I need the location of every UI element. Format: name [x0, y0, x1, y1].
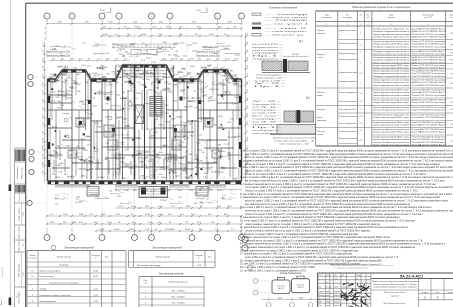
svg-text:Дата: Дата [347, 287, 351, 289]
svg-text:Улучшенная окраска масляными с: Улучшенная окраска масляными соста [373, 129, 410, 131]
svg-text:Пр-1: Пр-1 [55, 45, 59, 47]
interior dim ticks rows [49, 83, 51, 85]
bottom dimension chains [115, 207, 242, 209]
svg-text:760: 760 [181, 142, 185, 144]
svg-text:0.000: 0.000 [145, 214, 151, 216]
svg-text:тип 2: тип 2 [109, 126, 114, 128]
svg-text:3.3: 3.3 [194, 108, 198, 110]
svg-text:12.4: 12.4 [129, 56, 134, 58]
svg-text:Фамил.: Фамил. [334, 301, 341, 304]
svg-text:640: 640 [77, 74, 81, 76]
dim row under wall [115, 188, 242, 190]
sub dimension lines above wall [50, 60, 130, 62]
svg-text:Краска МА-25 ГОСТ-10503-71 Вар: Краска МА-25 ГОСТ-10503-71 Вар.2,3 [412, 124, 447, 127]
svg-text:45: 45 [112, 47, 115, 49]
svg-text:площадка: площадка [252, 130, 278, 132]
svg-text:7.2: 7.2 [206, 199, 209, 201]
svg-text:клетки: клетки [317, 134, 323, 136]
svg-text:11.9: 11.9 [138, 158, 143, 160]
svg-text:16.61: 16.61 [128, 91, 134, 93]
svg-text:30.24: 30.24 [118, 67, 124, 69]
svg-text:4: 4 [368, 24, 370, 26]
svg-text:кухня-ниша: кухня-ниша [78, 169, 89, 171]
svg-text:2700: 2700 [125, 126, 130, 128]
svg-text:910 × 2070(h): 910 × 2070(h) [172, 289, 185, 292]
svg-text:9,0: 9,0 [45, 37, 47, 40]
svg-text:1: 1 [326, 24, 328, 26]
svg-text:1390: 1390 [90, 194, 94, 196]
svg-text:590: 590 [145, 45, 149, 47]
svg-text:Краска МА-25 ГОСТ-10503-71 Вар: Краска МА-25 ГОСТ-10503-71 Вар.2,3 [412, 50, 447, 53]
svg-text:12.4: 12.4 [179, 116, 184, 118]
svg-text:11.9: 11.9 [232, 104, 237, 106]
sheet edge line [9, 0, 11, 307]
svg-text:2070: 2070 [163, 145, 168, 147]
svg-text:ванная: ванная [111, 105, 117, 107]
svg-text:4.31: 4.31 [234, 59, 239, 61]
svg-text:Б: Б [46, 16, 48, 18]
svg-text:4.31: 4.31 [171, 138, 176, 140]
svg-text:Кирпичная стена 250: Кирпичная стена 250 [110, 135, 129, 137]
svg-text:Потолки железобетонные: Потолки железобетонные [339, 43, 358, 45]
svg-text:11.9: 11.9 [141, 60, 146, 62]
svg-text:Экспликация проёмов: Экспликация проёмов [159, 273, 184, 276]
svg-text:Провер.: Провер. [318, 295, 325, 297]
svg-text:-0.02: -0.02 [118, 206, 124, 208]
svg-text:Улучшенная окраска масляными с: Улучшенная окраска масляными соста [373, 110, 410, 112]
svg-text:Окраска водоэмульсионными сост: Окраска водоэмульсионными составами [373, 34, 410, 36]
svg-text:Подп. и дата: Подп. и дата [19, 239, 21, 252]
svg-text:11.9: 11.9 [60, 105, 65, 107]
svg-text:45: 45 [194, 91, 197, 93]
room number circles [64, 118, 68, 122]
svg-text:Экспликация помещений: Экспликация помещений [152, 247, 182, 250]
bay window ticks [63, 68, 65, 70]
svg-text:0.000: 0.000 [152, 67, 158, 69]
svg-text:м²: м² [198, 256, 200, 259]
svg-text:2.89: 2.89 [197, 265, 202, 267]
svg-text:Затирка швов раствором М100 с: Затирка швов раствором М100 с окрас [373, 122, 409, 124]
svg-text:1-1: 1-1 [247, 129, 249, 133]
svg-text:Окраска водоэмульсионными сост: Окраска водоэмульсионными составами [373, 73, 410, 75]
svg-text:— гипсокартон: — гипсокартон [265, 31, 307, 33]
svg-text:380: 380 [85, 82, 89, 84]
svg-text:Начальник отдела Согласовано /: Начальник отдела Согласовано /подпись/ Ф… [330, 263, 383, 266]
svg-text:300: 300 [73, 68, 76, 70]
svg-text:Оклейка обоями по подготовке с: Оклейка обоями по подготовке стен [373, 36, 409, 39]
svg-text:30.24: 30.24 [96, 82, 102, 84]
svg-text:Плитка ГОСТ 6141-91 на раствор: Плитка ГОСТ 6141-91 на растворе [412, 41, 447, 43]
svg-text:1500: 1500 [158, 124, 163, 126]
svg-text:Кол.: Кол. [105, 257, 109, 259]
svg-text:9,0: 9,0 [45, 27, 47, 30]
svg-text:п/п: п/п [144, 283, 147, 285]
svg-text:1200: 1200 [247, 112, 249, 117]
blocking scheme dims [258, 280, 272, 282]
svg-text:Д.1: Д.1 [299, 39, 304, 43]
svg-text:380: 380 [227, 153, 231, 155]
svg-text:1200: 1200 [214, 68, 218, 70]
svg-text:-0.02: -0.02 [169, 70, 175, 72]
legend item 1 [252, 13, 261, 15]
svg-text:30.24: 30.24 [85, 100, 91, 102]
svg-text:лист: лист [335, 278, 339, 280]
explication table A title [51, 245, 55, 249]
svg-text:Наружные стены панельн.: Наружные стены панельн. [339, 30, 357, 32]
detail D2 masonry [284, 111, 296, 122]
svg-text:6.00: 6.00 [174, 160, 179, 162]
svg-text:1500: 1500 [66, 77, 71, 79]
svg-text:ВД-АК-111 по ГОСТ 28196-89, ФЛ: ВД-АК-111 по ГОСТ 28196-89, ФЛ-0,3К [412, 56, 447, 59]
svg-text:2190: 2190 [100, 10, 106, 12]
svg-text:30.24: 30.24 [188, 162, 194, 164]
svg-text:СЗ-9: СЗ-9 [198, 134, 202, 136]
svg-text:1: 1 [151, 238, 152, 240]
svg-text:1: 1 [47, 238, 48, 240]
svg-text:Плитка ГОСТ 6141-91 на раствор: Плитка ГОСТ 6141-91 на растворе [412, 54, 447, 56]
svg-text:2190: 2190 [131, 157, 136, 159]
svg-text:Стены с приборами отоп.: Стены с приборами отоп. [339, 123, 357, 125]
svg-text:-0.02: -0.02 [107, 222, 113, 224]
dark speck clusters [144, 87, 146, 88]
svg-text:Окраска водоэмульсионными сост: Окраска водоэмульсионными составами [373, 92, 410, 94]
svg-text:лоджия: лоджия [252, 59, 278, 61]
svg-text:см. узел 1: см. узел 1 [216, 43, 225, 45]
svg-text:3.3: 3.3 [153, 62, 157, 64]
svg-text:0.000: 0.000 [53, 157, 59, 159]
svg-text:— кухня-ниша: — кухня-ниша [265, 17, 311, 19]
svg-text:880: 880 [247, 96, 249, 100]
svg-text:см. узел 1: см. узел 1 [205, 202, 214, 204]
svg-text:Пл.: Пл. [367, 14, 371, 16]
svg-text:250: 250 [135, 56, 139, 58]
svg-text:керамзитобетон: керамзитобетон [252, 47, 278, 49]
svg-text:0.000: 0.000 [99, 229, 105, 231]
svg-text:380: 380 [142, 117, 146, 119]
svg-text:керамзитобетон: керамзитобетон [136, 151, 150, 153]
svg-text:760: 760 [247, 48, 249, 52]
svg-text:120 380: 120 380 [291, 54, 298, 56]
balcony slabs [55, 185, 90, 187]
bottom wall [48, 180, 242, 182]
porch right2 [196, 187, 208, 197]
svg-text:лоджия: лоджия [186, 45, 193, 47]
svg-text:590: 590 [81, 124, 85, 126]
svg-text:Д.2: Д.2 [306, 96, 311, 100]
left vertical dim chain [44, 42, 46, 182]
blocking scheme axis circles [253, 279, 258, 284]
svg-text:Раствор М100 ГОСТ 28013-98 шпа: Раствор М100 ГОСТ 28013-98 шпатл. [412, 129, 446, 131]
svg-text:подл.: подл. [23, 271, 25, 276]
svg-text:16.61: 16.61 [137, 67, 143, 69]
svg-text:Окраска водоэмульсионными сост: Окраска водоэмульсионными составами [373, 100, 410, 102]
svg-text:Стены лестничных клет.: Стены лестничных клет. [339, 143, 357, 145]
svg-text:1160: 1160 [88, 114, 93, 116]
svg-text:Подп. и дата: Подп. и дата [19, 207, 21, 221]
svg-text:380: 380 [66, 137, 70, 139]
svg-text:черт.: черт. [326, 302, 331, 304]
svg-text:Затирка швов раствором М100 с: Затирка швов раствором М100 с окрас [373, 102, 409, 104]
svg-text:4.31: 4.31 [121, 92, 126, 94]
title block stamp grid [317, 273, 319, 307]
svg-text:1390: 1390 [97, 127, 102, 129]
svg-text:2190: 2190 [173, 101, 178, 103]
svg-text:98: 98 [202, 152, 205, 154]
svg-text:черт.: черт. [326, 291, 331, 293]
svg-text:Обои ГОСТ 6810-2002 РЭ клей Бу: Обои ГОСТ 6810-2002 РЭ клей Бустилат [412, 109, 446, 112]
svg-text:Раствор М100 ГОСТ 28013-98 шпа: Раствор М100 ГОСТ 28013-98 шпатл. [412, 44, 446, 46]
svg-text:510: 510 [171, 76, 175, 78]
svg-text:1.18: 1.18 [58, 171, 63, 173]
svg-text:лоджия: лоджия [252, 124, 276, 126]
svg-text:Поз.: Поз. [144, 280, 148, 282]
svg-text:Облицовка глазурованной плитко: Облицовка глазурованной плиткой на [373, 45, 410, 48]
svg-text:ВД-АК-111 по ГОСТ 28196-89, ФЛ: ВД-АК-111 по ГОСТ 28196-89, ФЛ-0,3К [412, 30, 447, 33]
svg-text:25.1: 25.1 [51, 101, 56, 103]
svg-text:h=2070: h=2070 [220, 49, 226, 51]
svg-text:Вент. канал: Вент. канал [252, 116, 278, 118]
svg-text:1в: 1в [31, 276, 34, 278]
svg-text:2070: 2070 [211, 100, 216, 102]
svg-text:Помещение уборочн. инвентаря: Помещение уборочн. инвентаря [40, 295, 71, 297]
svg-text:30.24: 30.24 [225, 59, 231, 61]
svg-text:Пр-1: Пр-1 [254, 86, 285, 88]
svg-text:2070: 2070 [102, 76, 107, 78]
svg-text:1б: 1б [31, 270, 34, 272]
svg-text:Инв.: Инв. [1, 300, 3, 305]
svg-text:810 × 2070(h): 810 × 2070(h) [172, 295, 185, 298]
svg-text:СПДС: СПДС [356, 275, 362, 277]
side walls [47, 79, 49, 181]
svg-text:С3-1: С3-1 [55, 195, 59, 197]
svg-text:Обои ГОСТ 6810-2002 РЭ клей Бу: Обои ГОСТ 6810-2002 РЭ клей Бустилат [412, 121, 446, 124]
svg-text:ВД-АК-111 по ГОСТ 28196-89, ФЛ: ВД-АК-111 по ГОСТ 28196-89, ФЛ-0,3К [412, 99, 447, 102]
svg-text:комнаты: комнаты [317, 33, 326, 35]
svg-text:Б: Б [169, 16, 171, 18]
svg-text:640: 640 [201, 92, 205, 94]
svg-text:Облицовка глазурованной плитко: Облицовка глазурованной плиткой на [373, 75, 410, 78]
svg-text:Стены и потолки комнат: Стены и потолки комнат [339, 101, 357, 103]
svg-text:Внутрен.: Внутрен. [317, 54, 326, 56]
svg-text:25.1: 25.1 [125, 149, 130, 151]
svg-text:98: 98 [176, 51, 179, 53]
svg-text:30.24: 30.24 [66, 90, 72, 92]
svg-text:по серии 1.038: по серии 1.038 [254, 80, 282, 82]
svg-text:2580: 2580 [221, 198, 225, 200]
svg-text:Вент. канал: Вент. канал [170, 203, 180, 205]
svg-text:Кл-2: Кл-2 [67, 47, 71, 49]
svg-text:1160: 1160 [168, 91, 173, 93]
svg-text:Экспликация помещений: Экспликация помещений [64, 247, 94, 250]
svg-text:14-2: 14-2 [17, 294, 19, 298]
svg-text:Затирка швов раствором М100 с: Затирка швов раствором М100 с окрас [373, 117, 409, 119]
legend item 3 [252, 27, 261, 29]
svg-text:жилая группа «Вяткинский» 5 г.: жилая группа «Вяткинский» 5 г. Псков [374, 283, 417, 286]
svg-text:0.000: 0.000 [235, 55, 241, 57]
section party line [144, 65, 146, 180]
blocking scheme blocks [272, 280, 290, 294]
svg-text:Окраска водоэмульсионными сост: Окраска водоэмульсионными составами [373, 80, 410, 82]
svg-text:2190: 2190 [213, 161, 218, 163]
svg-text:ванная: ванная [221, 156, 227, 158]
bottom axis circles [44, 235, 50, 241]
svg-text:Плитка ГОСТ 6141-91 на раствор: Плитка ГОСТ 6141-91 на растворе [412, 107, 447, 109]
svg-text:Лист: Лист [436, 292, 440, 294]
svg-text:6.00: 6.00 [152, 151, 157, 153]
svg-text:120: 120 [165, 105, 169, 107]
svg-text:по серии 1.038: по серии 1.038 [218, 45, 231, 47]
svg-text:1.18: 1.18 [105, 143, 110, 145]
svg-text:760: 760 [167, 84, 171, 86]
doc number cell [371, 277, 453, 279]
svg-text:-0.02: -0.02 [81, 65, 87, 67]
svg-text:Несущая стена: Несущая стена [213, 84, 227, 86]
svg-text:Ф2: Ф2 [342, 274, 344, 277]
svg-text:1500: 1500 [136, 93, 141, 95]
svg-text:монолит. уч.: монолит. уч. [146, 129, 157, 131]
svg-text:250: 250 [156, 94, 160, 96]
svg-text:Оклейка обоями по подготовке с: Оклейка обоями по подготовке стен [373, 28, 409, 31]
top dimension chains [47, 23, 242, 25]
svg-text:1160: 1160 [66, 146, 71, 148]
svg-text:3.3: 3.3 [189, 124, 193, 126]
svg-text:Н.контр.: Н.контр. [318, 298, 325, 300]
svg-text:2: 2 [145, 296, 147, 298]
svg-text:2190: 2190 [196, 10, 202, 12]
svg-text:-0.02: -0.02 [177, 163, 183, 165]
svg-text:380: 380 [194, 203, 197, 205]
svg-text:1390: 1390 [228, 70, 233, 72]
svg-text:Ограждения лоджий бет.: Ограждения лоджий бет. [339, 80, 357, 83]
svg-text:12.4: 12.4 [76, 199, 80, 201]
svg-text:1.18: 1.18 [57, 107, 62, 109]
svg-text:Затирка швов раствором М100 с: Затирка швов раствором М100 с окрас [373, 90, 409, 92]
svg-text:1: 1 [145, 290, 147, 292]
svg-text:590: 590 [247, 40, 249, 44]
svg-text:блок-секц.: блок-секц. [296, 284, 305, 286]
svg-text:Схема блокировки: Схема блокировки [280, 272, 302, 275]
svg-text:черт.: черт. [326, 295, 331, 297]
svg-text:Б: Б [101, 16, 103, 18]
svg-text:Панели потолков жилых: Панели потолков жилых [339, 138, 357, 140]
svg-text:ванная: ванная [223, 144, 229, 146]
svg-text:— монолит. уч.: — монолит. уч. [265, 35, 306, 37]
svg-text:Оклейка обоями по подготовке с: Оклейка обоями по подготовке стен [373, 81, 409, 84]
legend item 4 [252, 34, 261, 36]
svg-text:Вспомогательные помещения: Вспомогательные помещения [50, 282, 79, 284]
svg-text:Эт.: Эт. [359, 14, 362, 16]
svg-text:2: 2 [360, 45, 362, 47]
svg-text:30.24: 30.24 [52, 127, 58, 129]
svg-text:5А.22-4: 5А.22-4 [298, 286, 304, 289]
svg-text:Краска МА-25 ГОСТ-10503-71 Вар: Краска МА-25 ГОСТ-10503-71 Вар.2,3 [412, 67, 447, 70]
svg-text:45: 45 [180, 173, 183, 175]
svg-text:250: 250 [109, 190, 112, 192]
svg-text:Справ. №: Справ. № [18, 194, 21, 202]
svg-text:— коридор: — коридор [265, 20, 312, 22]
svg-text:7.2: 7.2 [230, 190, 233, 192]
svg-text:5.61: 5.61 [43, 41, 45, 46]
margin stamp text block 2 [15, 185, 17, 192]
svg-text:1510: 1510 [247, 64, 249, 69]
svg-text:5А.22-4-АС1: 5А.22-4-АС1 [400, 273, 424, 278]
svg-text:1500: 1500 [177, 190, 181, 192]
svg-text:1: 1 [72, 238, 73, 240]
svg-text:810: 810 [105, 159, 109, 161]
svg-text:Тамбур: Тамбур [40, 289, 48, 291]
svg-text:250: 250 [115, 82, 119, 84]
svg-text:760: 760 [172, 125, 176, 127]
margin stamp strip [14, 148, 16, 307]
svg-text:1500: 1500 [299, 297, 303, 299]
svg-text:Плитка ГОСТ 6141-91 на раствор: Плитка ГОСТ 6141-91 на растворе [412, 34, 447, 36]
svg-text:ванная: ванная [60, 46, 66, 48]
top wall piers (hatched) [48, 79, 51, 82]
svg-text:Гостиная-кухня: Гостиная-кухня [40, 276, 55, 278]
svg-text:1: 1 [134, 238, 135, 240]
svg-text:590: 590 [107, 73, 111, 75]
svg-text:отделки: отделки [387, 17, 394, 19]
legend item 2 [252, 22, 261, 24]
svg-text:30.24: 30.24 [170, 119, 176, 121]
svg-text:0.000: 0.000 [214, 89, 220, 91]
svg-text:510: 510 [220, 172, 224, 174]
svg-text:910: 910 [153, 190, 156, 192]
svg-text:Плитка ГОСТ 6141-91 на раствор: Плитка ГОСТ 6141-91 на растворе [412, 80, 447, 82]
svg-text:Обозначение: Обозначение [422, 14, 435, 16]
svg-text:16.61: 16.61 [93, 270, 99, 272]
svg-text:-0.02: -0.02 [55, 198, 59, 200]
svg-text:1200: 1200 [204, 173, 209, 175]
svg-text:1160: 1160 [105, 116, 110, 118]
svg-text:2700: 2700 [82, 104, 87, 106]
svg-text:Оклейка обоями по подготовке с: Оклейка обоями по подготовке стен [373, 114, 409, 117]
svg-text:45: 45 [50, 164, 53, 166]
svg-text:Краска МА-25 ГОСТ-10503-71 Вар: Краска МА-25 ГОСТ-10503-71 Вар.2,3 [412, 131, 447, 134]
svg-text:Вид: Вид [325, 14, 329, 16]
svg-text:Б: Б [151, 16, 153, 18]
svg-text:Плитка ГОСТ 6141-91 на раствор: Плитка ГОСТ 6141-91 на растворе [412, 46, 447, 48]
svg-text:30.24: 30.24 [119, 98, 125, 100]
svg-text:910: 910 [55, 204, 58, 206]
svg-text:6: 6 [427, 24, 429, 26]
svg-text:2: 2 [360, 109, 362, 111]
svg-text:Окраска водоэмульсионными сост: Окраска водоэмульсионными составами [373, 85, 410, 87]
svg-text:30.24: 30.24 [201, 67, 207, 69]
svg-text:1510: 1510 [51, 76, 56, 78]
svg-text:640: 640 [168, 54, 172, 56]
svg-text:h=2070: h=2070 [173, 136, 179, 138]
svg-text:6.00: 6.00 [175, 175, 180, 177]
svg-text:стены: стены [317, 57, 323, 59]
svg-text:плита перекрытия — 220: плита перекрытия — 220 [279, 143, 309, 145]
svg-text:по серии 1.038: по серии 1.038 [107, 146, 120, 148]
svg-text:керамзитобетон: керамзитобетон [95, 198, 109, 200]
svg-text:1510: 1510 [148, 161, 153, 163]
svg-text:Окраска водоэмульсионными сост: Окраска водоэмульсионными составами [373, 125, 410, 127]
svg-text:С: С [424, 296, 427, 300]
svg-text:Перегородка 120: Перегородка 120 [203, 47, 218, 49]
svg-text:Окраска водоэмульсионными сост: Окраска водоэмульсионными составами [373, 95, 410, 97]
svg-text:ГИП: ГИП [318, 302, 322, 304]
svg-text:2190: 2190 [137, 50, 142, 52]
svg-text:2.89: 2.89 [144, 190, 148, 192]
svg-text:Окраска водоэмульсионными сост: Окраска водоэмульсионными составами [373, 71, 410, 73]
svg-text:м2: м2 [367, 17, 370, 19]
openings table [139, 276, 204, 278]
svg-text:640: 640 [77, 91, 81, 93]
svg-text:Обои ГОСТ 6810-2002 РЭ клей Бу: Обои ГОСТ 6810-2002 РЭ клей Бустилат [412, 89, 446, 92]
